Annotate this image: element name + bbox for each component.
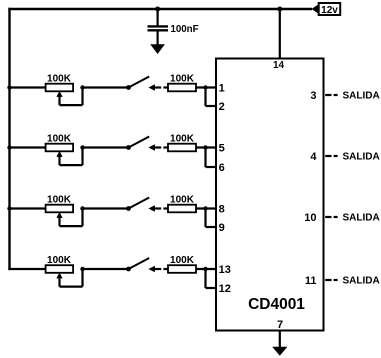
node junction bus row 1 — [7, 85, 11, 89]
svg-text:3: 3 — [310, 90, 316, 102]
svg-text:5: 5 — [219, 143, 225, 155]
svg-text:100K: 100K — [170, 255, 195, 266]
svg-text:100K: 100K — [170, 134, 195, 145]
node junction R1 output — [203, 85, 207, 89]
wire output pin 10 stub — [325, 216, 337, 218]
wire pin 14 supply lead — [279, 9, 281, 59]
wire branch to pin 9 — [206, 209, 216, 228]
switch SW2 — [126, 137, 155, 151]
op IC U1 CD4001 body — [216, 59, 324, 331]
wire bus to P4 — [8, 268, 45, 270]
potentiometer P4 100K — [46, 265, 83, 286]
svg-text:100K: 100K — [170, 74, 195, 85]
svg-text:CD4001: CD4001 — [248, 296, 305, 313]
svg-text:4: 4 — [310, 151, 317, 163]
wire SW2 to R2 — [155, 146, 169, 148]
wire R1 to pin 1 — [196, 86, 216, 88]
svg-text:10: 10 — [304, 212, 316, 224]
svg-text:100nF: 100nF — [171, 24, 199, 35]
potentiometer P1 100K — [46, 84, 83, 105]
ground below C1 — [150, 44, 165, 54]
node junction bus row 3 — [7, 206, 11, 210]
wire bus to P2 — [8, 146, 45, 148]
svg-text:11: 11 — [305, 275, 317, 287]
svg-text:SALIDA: SALIDA — [343, 91, 380, 102]
svg-text:12v: 12v — [321, 5, 338, 16]
switch SW4 — [126, 258, 155, 272]
node junction R2 output — [203, 145, 207, 149]
resistor R1 100K — [168, 84, 196, 92]
svg-text:100K: 100K — [47, 134, 72, 145]
svg-text:12: 12 — [219, 283, 231, 295]
node junction P2 wiper — [80, 145, 84, 149]
wire bus to P3 — [8, 207, 45, 209]
svg-text:SALIDA: SALIDA — [343, 213, 380, 224]
wire branch to pin 6 — [206, 148, 216, 168]
svg-text:100K: 100K — [47, 74, 72, 85]
svg-text:6: 6 — [219, 162, 225, 174]
svg-text:13: 13 — [219, 264, 231, 276]
node junction P3 wiper — [80, 206, 84, 210]
potentiometer P3 100K — [46, 205, 83, 226]
wire C1 bottom lead — [157, 31, 159, 46]
node junction R4 output — [203, 267, 207, 271]
wire R4 to pin 13 — [196, 268, 216, 270]
wire output pin 4 stub — [325, 155, 337, 157]
wire R2 to pin 5 — [196, 146, 216, 148]
wire output pin 3 stub — [325, 94, 337, 96]
wire C1 top lead — [157, 9, 159, 26]
wire pin 7 ground lead — [279, 331, 281, 349]
wire branch to pin 12 — [206, 269, 216, 288]
svg-text:8: 8 — [219, 204, 225, 216]
svg-text:100K: 100K — [47, 255, 72, 266]
svg-text:14: 14 — [273, 60, 285, 71]
svg-text:100K: 100K — [170, 195, 195, 206]
switch SW1 — [126, 77, 155, 91]
wire P2 to SW2 — [83, 146, 129, 148]
svg-text:7: 7 — [277, 319, 283, 331]
svg-text:1: 1 — [219, 83, 225, 95]
wire bus to P1 — [8, 86, 45, 88]
svg-text:2: 2 — [219, 101, 225, 113]
wire R3 to pin 8 — [196, 207, 216, 209]
wire SW4 to R4 — [155, 268, 169, 270]
resistor R4 100K — [168, 265, 196, 273]
node junction P1 wiper — [80, 85, 84, 89]
node junction R3 output — [203, 206, 207, 210]
power flag 12v — [312, 3, 341, 16]
wire P3 to SW3 — [83, 207, 129, 209]
wire SW1 to R1 — [155, 86, 169, 88]
wire P4 to SW4 — [83, 268, 129, 270]
switch SW3 — [126, 198, 155, 212]
node junction top rail / C1 — [155, 7, 160, 12]
node junction bus row 2 — [7, 145, 11, 149]
resistor R2 100K — [168, 144, 196, 152]
wire top +12V rail — [8, 8, 312, 10]
potentiometer P2 100K — [46, 144, 83, 165]
wire P1 to SW1 — [83, 86, 129, 88]
wire output pin 11 stub — [325, 279, 337, 281]
svg-text:SALIDA: SALIDA — [343, 276, 380, 287]
node junction P4 wiper — [80, 267, 84, 271]
svg-text:SALIDA: SALIDA — [343, 152, 380, 163]
svg-text:9: 9 — [219, 222, 225, 234]
wire SW3 to R3 — [155, 207, 169, 209]
capacitor C1 100nF — [148, 26, 169, 30]
wire branch to pin 2 — [206, 88, 216, 107]
wire left vertical bus — [8, 8, 10, 270]
svg-text:100K: 100K — [47, 195, 72, 206]
node junction top rail / pin 14 — [277, 7, 282, 12]
ground at pin 7 — [272, 347, 287, 356]
resistor R3 100K — [168, 205, 196, 213]
